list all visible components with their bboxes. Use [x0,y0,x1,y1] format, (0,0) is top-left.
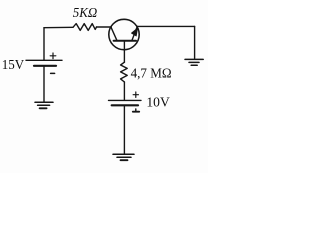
transistor Q1 emitter arrowhead [131,28,137,36]
svg-text:4,7 MΩ: 4,7 MΩ [131,66,172,81]
battery B2 10V bottom plate [112,104,138,106]
wire top-left horizontal [44,26,73,28]
transistor Q1 base bar [114,40,136,42]
wire battery 10V to ground bottom [123,106,125,153]
svg-text:15V: 15V [2,58,24,73]
wire right vertical [194,26,196,59]
transistor Q1 circle [109,19,139,49]
resistor R2 4.7M vertical zigzag [121,62,128,82]
wire resistor to battery 10V [123,82,125,100]
transistor Q1 emitter diagonal [132,26,137,40]
battery B2 10V top plate [109,99,142,101]
battery B1 minus sign [51,72,55,74]
battery B2 minus sign [133,109,139,112]
wire transistor to right [137,25,195,27]
ground right [185,59,203,65]
wire transistor bottom [123,41,125,62]
ground left [35,102,53,108]
wire battery to ground left [43,67,45,102]
battery B1 15V bottom plate [34,65,56,67]
battery B1 plus sign [50,53,56,59]
transistor Q1 collector diagonal [111,27,117,40]
resistor R1 5K zigzag [73,24,97,31]
ground bottom [113,154,134,160]
svg-text:5KΩ: 5KΩ [73,6,98,21]
wire resistor to transistor [97,26,112,28]
battery B1 15V top plate [26,59,62,61]
wire left vertical [43,28,45,60]
battery B2 plus sign [133,92,138,97]
svg-text:10V: 10V [146,95,169,110]
